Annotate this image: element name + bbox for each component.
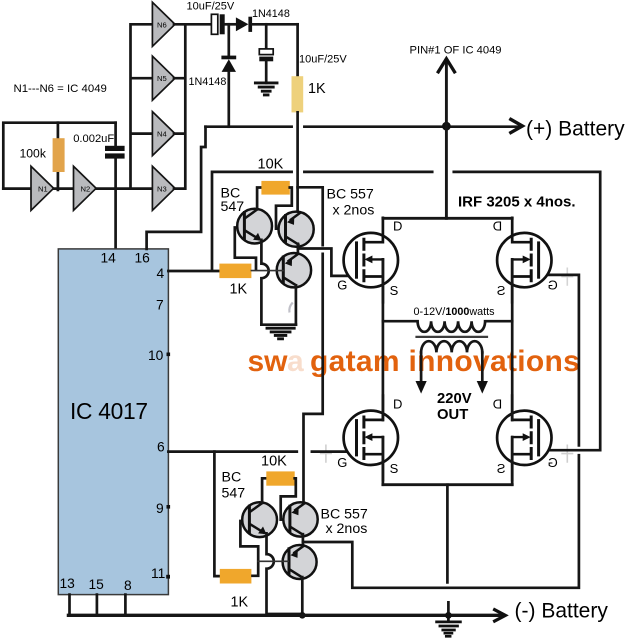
wire Q6 collector to rail [301, 577, 304, 615]
transistor Q6 BC557 [283, 545, 317, 579]
wire pin 8 riser [124, 595, 127, 616]
IC U2 4017 body [58, 249, 168, 595]
junction dot Q6 rail [299, 612, 306, 619]
capacitor C1 10uF/25V coupling [211, 14, 217, 34]
wire pin 6 drop to lower 1K [214, 452, 219, 576]
svg-text:G: G [337, 455, 347, 470]
svg-text:(+) Battery: (+) Battery [526, 118, 625, 141]
wire ground bar upper driver [261, 323, 296, 326]
inverter N4 [152, 112, 175, 156]
svg-text:OUT: OUT [437, 407, 468, 423]
transistor Q5 BC557 [283, 502, 317, 536]
wire pin 15 riser [96, 595, 99, 616]
svg-text:sw: sw [248, 345, 289, 378]
resistor R2 1K bootstrap [292, 76, 304, 112]
svg-text:(-) Battery: (-) Battery [515, 600, 609, 623]
svg-text:IC 4017: IC 4017 [70, 398, 148, 424]
wire Q4 collector to 10K [262, 478, 266, 503]
svg-text:14: 14 [101, 251, 117, 266]
svg-text:D: D [493, 219, 502, 234]
svg-text:G: G [548, 455, 558, 470]
diode D1 1N4148 [236, 17, 249, 31]
wire output bus N3-N6 [174, 24, 185, 188]
svg-text:547: 547 [221, 199, 245, 215]
node (+) battery rail [206, 125, 520, 128]
wire pin1-of-4049 / bridge supply vertical [445, 61, 448, 218]
capacitor C2 10uF/25V reservoir [259, 49, 273, 55]
svg-text:D: D [393, 219, 402, 234]
wire pin 16 to supply rail [147, 127, 206, 249]
svg-text:6: 6 [157, 440, 165, 455]
arrow (+) Battery [511, 119, 523, 132]
svg-text:7: 7 [156, 298, 164, 313]
resistor R6 10K lower [266, 471, 294, 485]
wire C2 to ground [265, 61, 268, 83]
svg-text:G: G [548, 277, 558, 292]
junction dot center tap rail [445, 612, 452, 619]
ground G2 [267, 328, 294, 339]
inverter N5 [152, 56, 175, 100]
wire secondary output left arrow [420, 352, 423, 381]
transformer T1 core [417, 336, 488, 338]
faint artifact cross 1 [320, 445, 332, 463]
wire bridge top edge [383, 217, 512, 220]
wire boost node down to reservoir cap C2 [265, 24, 268, 49]
wire 100k top stub [57, 123, 60, 138]
svg-text:G: G [337, 277, 347, 292]
wire 100k bottom stub [57, 172, 60, 190]
svg-text:D: D [493, 396, 502, 411]
wire Q1 base path [235, 228, 256, 270]
wire pin 4 feed line [168, 172, 600, 450]
svg-text:10K: 10K [258, 156, 284, 172]
MOSFET M1 IRF3205 top-left [337, 218, 402, 302]
wire cap bottom to pin 14 riser [114, 157, 117, 249]
capacitor 0.002uF [105, 146, 125, 151]
wire Q1 emitter to ground with hop [261, 240, 268, 325]
svg-text:10K: 10K [261, 454, 287, 470]
wire junction down to diode D2 [227, 24, 230, 55]
wire oscillator feedback loop top [3, 123, 115, 189]
svg-text:x 2nos: x 2nos [333, 203, 375, 219]
svg-text:N2: N2 [81, 185, 91, 194]
svg-text:BC 557: BC 557 [327, 186, 374, 202]
svg-text:13: 13 [60, 576, 76, 591]
transformer T1 primary [383, 321, 512, 332]
svg-text:0-12V/1000watts: 0-12V/1000watts [414, 306, 496, 318]
wire N1 out to N2 in [54, 187, 74, 190]
pin 11 nub [166, 575, 170, 579]
wire pin 13 riser [68, 595, 71, 616]
wire Q4 emitter to rail with hop [267, 533, 303, 614]
transistor Q1 BC547 [237, 209, 272, 244]
wire base node thin lower [258, 560, 288, 562]
faint artifact arc [289, 303, 292, 313]
svg-text:15: 15 [89, 577, 105, 592]
svg-text:1K: 1K [308, 81, 326, 97]
wire bridge bottom edge [383, 483, 512, 486]
wire N6 output to coupling cap [185, 23, 211, 26]
svg-text:11: 11 [151, 566, 165, 581]
svg-text:N5: N5 [157, 74, 167, 83]
svg-text:16: 16 [135, 251, 151, 266]
wire D2 anode down to battery rail [227, 72, 230, 127]
svg-text:1N4148: 1N4148 [189, 76, 227, 88]
wire boost node corner down to 1K [296, 24, 299, 76]
wire D1 cathode to boost node [252, 23, 298, 26]
node (-) battery rail [68, 614, 502, 617]
svg-text:BC: BC [222, 470, 242, 486]
wire loop to N1 input [3, 187, 31, 190]
wire input bus N3-N6 [131, 24, 153, 188]
svg-text:1K: 1K [230, 282, 248, 298]
svg-text:4: 4 [157, 266, 165, 281]
svg-text:S: S [497, 461, 506, 476]
wire bridge left edge mid [382, 260, 385, 420]
ground G1 [255, 83, 277, 95]
faint artifact cross 3 [561, 268, 573, 286]
inverter N1 [31, 166, 54, 210]
svg-text:N4: N4 [157, 130, 167, 139]
svg-text:0.002uF: 0.002uF [73, 133, 114, 145]
wire N2 out to N3 in [96, 187, 152, 190]
svg-text:100k: 100k [20, 147, 47, 161]
wire Q3 collector to ground [295, 285, 298, 324]
wire secondary output right arrow [481, 352, 484, 381]
wire bridge right edge mid [511, 260, 514, 420]
svg-text:1K: 1K [231, 595, 249, 611]
wire base node thin [251, 270, 283, 272]
pin 9 nub [167, 505, 171, 509]
svg-text:N6: N6 [157, 20, 167, 29]
svg-text:10uF/25V: 10uF/25V [299, 53, 347, 65]
svg-text:9: 9 [156, 501, 164, 516]
arrow (-) Battery [495, 610, 506, 621]
arrow to PIN#1 [438, 59, 454, 72]
svg-text:x 2nos: x 2nos [326, 521, 368, 537]
svg-text:10uF/25V: 10uF/25V [187, 0, 235, 12]
wire driver output to M1 gate [298, 249, 357, 276]
svg-text:1N4148: 1N4148 [252, 8, 290, 20]
wire Q2 collector to Q3 emitter [297, 244, 300, 254]
wire Q5 collector to Q6 emitter [302, 534, 305, 546]
wire driver output to M4 gate [303, 275, 579, 588]
MOSFET M3 IRF3205 bottom-left [337, 396, 402, 480]
wire 10K right to Q5 base [281, 478, 296, 519]
inverter N2 [74, 166, 97, 210]
pin 10 nub [167, 353, 171, 357]
wire bridge left edge low [382, 437, 385, 484]
svg-text:S: S [390, 461, 399, 476]
svg-text:N1---N6 = IC 4049: N1---N6 = IC 4049 [14, 83, 107, 95]
resistor R3 10K upper [261, 181, 289, 195]
inverter N6 [152, 2, 175, 46]
svg-text:10: 10 [148, 348, 164, 363]
wire bridge bottom center tap [447, 485, 448, 616]
MOSFET M4 IRF3205 bottom-right (mirrored) [493, 396, 558, 480]
MOSFET M2 IRF3205 top-right (mirrored) [493, 218, 558, 302]
junction dot battery rail [442, 122, 451, 131]
svg-text:8: 8 [124, 578, 132, 593]
svg-text:S: S [497, 283, 506, 298]
svg-text:PIN#1 OF IC 4049: PIN#1 OF IC 4049 [410, 44, 502, 56]
transformer T1 secondary [421, 341, 482, 352]
wire R2 down to Q2 emitter [296, 112, 299, 211]
wire cap top stub [114, 123, 117, 146]
svg-text:a: a [287, 345, 304, 378]
svg-text:220V: 220V [437, 391, 472, 407]
wire cap to diode D1 [225, 23, 236, 26]
transistor Q3 BC557 [277, 253, 311, 287]
transistor Q2 BC557 [279, 212, 314, 247]
svg-text:S: S [390, 283, 399, 298]
wire Q4 base path [240, 521, 258, 576]
ground G3 [437, 615, 461, 636]
inverter N3 [152, 166, 175, 210]
svg-text:547: 547 [222, 485, 246, 501]
wire bridge right edge low [511, 437, 514, 484]
resistor R5 1K lower [220, 569, 252, 584]
svg-text:gatam innovations: gatam innovations [310, 345, 580, 378]
faint artifact cross 2 [561, 445, 573, 463]
transistor Q4 BC547 [242, 502, 277, 537]
wire 10K right to Q2 base [276, 188, 292, 229]
resistor 100k [53, 138, 65, 172]
wire bootstrap tee to lower driver feed [298, 187, 323, 502]
svg-text:N1: N1 [38, 185, 48, 194]
resistor R4 1K upper [219, 264, 251, 279]
svg-text:IRF 3205 x 4nos.: IRF 3205 x 4nos. [458, 193, 576, 210]
svg-text:N3: N3 [157, 184, 167, 193]
svg-text:D: D [393, 396, 402, 411]
diode D2 1N4148 vertical [221, 56, 236, 60]
wire pin 6 feed line [168, 450, 356, 453]
wire Q1 collector to 10K [257, 188, 261, 210]
